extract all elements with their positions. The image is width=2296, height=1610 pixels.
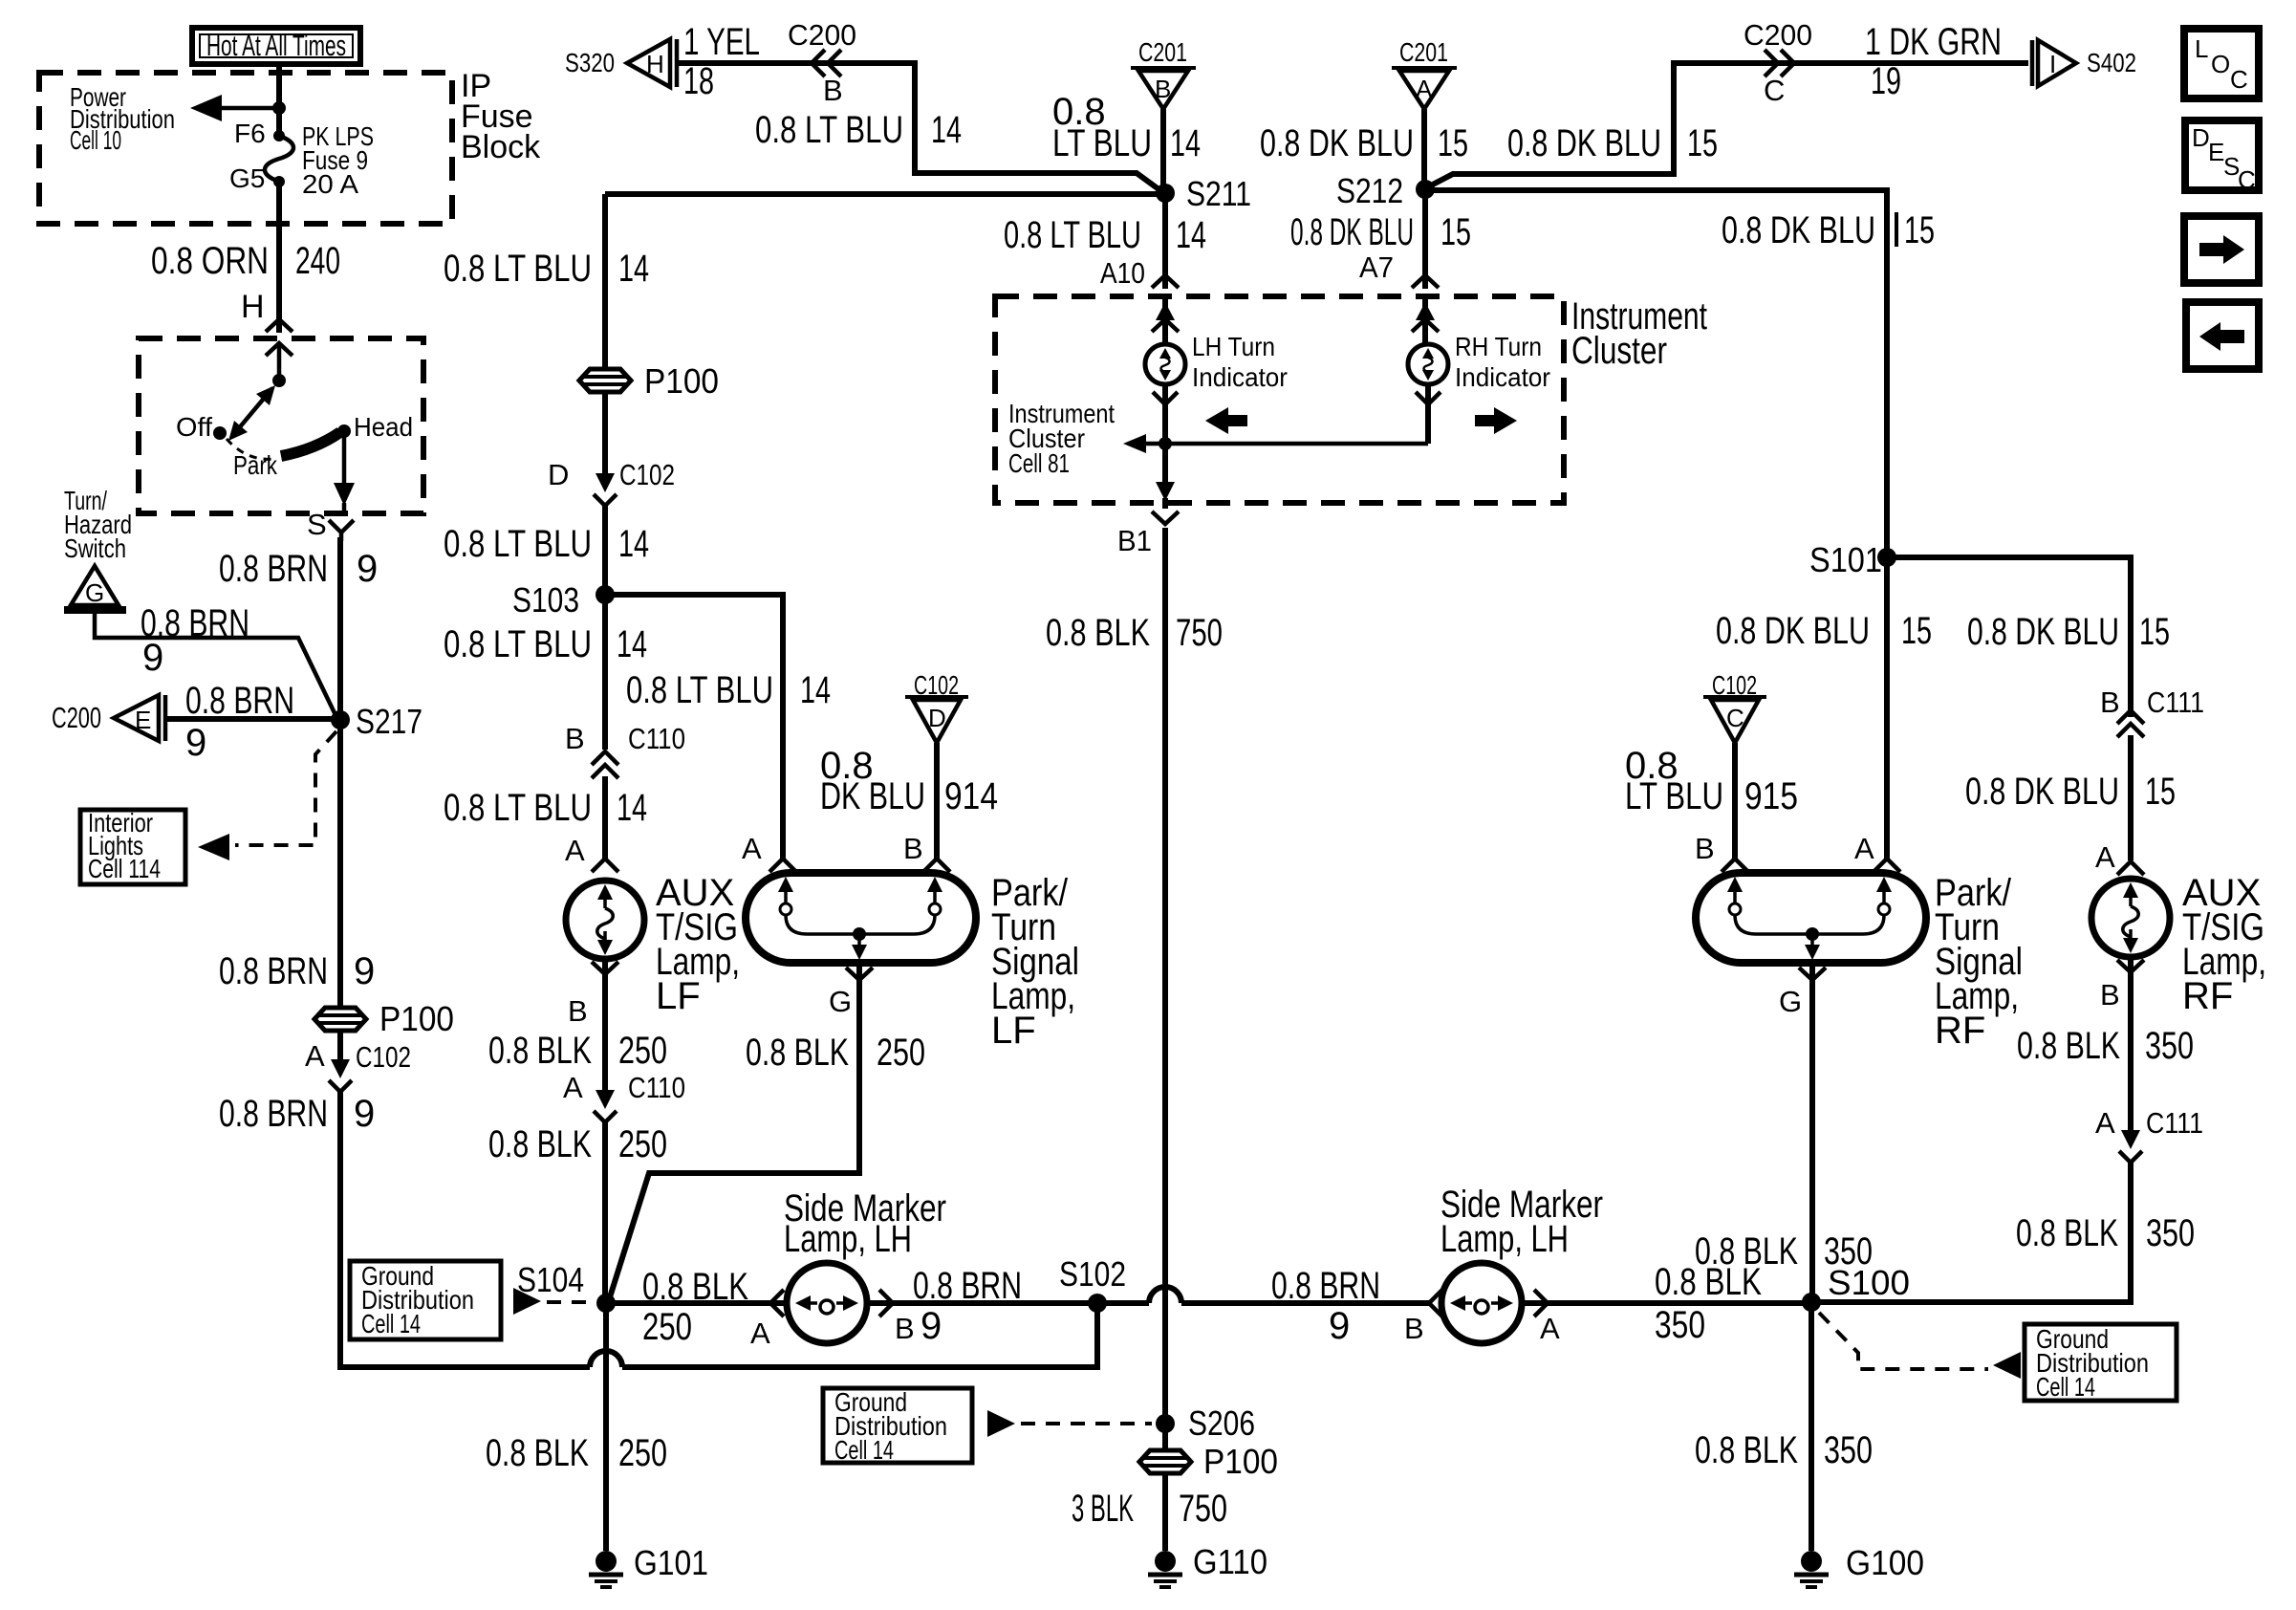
svg-text:0.8 BLK: 0.8 BLK [746, 1032, 849, 1074]
svg-text:C102: C102 [356, 1040, 411, 1074]
svg-text:0.8 DK BLU: 0.8 DK BLU [1507, 122, 1661, 164]
Ground Distribution Cell 14 box (right) [2025, 1324, 2177, 1402]
pin A of side marker lamp LH (left) [750, 1290, 784, 1350]
svg-text:Lamp, LH: Lamp, LH [784, 1218, 912, 1260]
label LH Turn Indicator [1192, 332, 1288, 392]
pin B of RF park/turn lamp [1695, 832, 1748, 872]
svg-text:F6: F6 [234, 119, 266, 148]
svg-text:A: A [565, 834, 585, 867]
label 0.8 DK BLU 15 [1965, 771, 2176, 813]
grommet P100 (dash panel, left-middle) [579, 361, 719, 401]
svg-text:Cell 114: Cell 114 [88, 854, 161, 883]
wire from Head contact down, exits switch as pin S [334, 431, 355, 512]
svg-text:C201: C201 [1138, 37, 1187, 67]
svg-text:C: C [1726, 704, 1744, 732]
IP Fuse Block dashed box [39, 73, 452, 224]
svg-text:Head: Head [354, 412, 413, 442]
svg-text:D: D [548, 458, 569, 491]
svg-text:DK BLU: DK BLU [820, 775, 925, 817]
wire 0.8 BRN 9 from LH side marker to S102 [867, 1300, 1090, 1306]
connector S320 pin H (triangle) [565, 39, 677, 87]
svg-text:9: 9 [1329, 1305, 1350, 1347]
svg-text:240: 240 [295, 240, 340, 282]
AUX T/SIG Lamp RF (bulb) [2091, 879, 2170, 957]
label 0.8 LT BLU 14 [444, 787, 647, 829]
label 0.8 BRN 9 [219, 548, 378, 590]
svg-text:G5: G5 [229, 163, 265, 193]
wire 0.8 LT BLU 14 from C110-B to AUX lamp pin A [602, 776, 608, 860]
svg-text:14: 14 [617, 787, 647, 829]
junction S217 [331, 702, 422, 741]
label 0.8 BLK 350 [1695, 1429, 1873, 1471]
svg-text:0.8 LT BLU: 0.8 LT BLU [444, 787, 592, 829]
svg-text:0.8 LT BLU: 0.8 LT BLU [755, 109, 903, 151]
svg-text:15: 15 [1438, 122, 1468, 164]
svg-text:0.8 BLK: 0.8 BLK [642, 1266, 748, 1308]
label 0.8 BRN 9 [219, 1093, 375, 1135]
svg-text:0.8 LT BLU: 0.8 LT BLU [626, 669, 773, 711]
svg-text:0.8 BLK: 0.8 BLK [488, 1030, 592, 1072]
pin A10 of instrument cluster [1100, 256, 1179, 290]
connector C102 pin A (inline, arrow down) [305, 1033, 411, 1092]
arrowhead to right ground box [1993, 1352, 2021, 1379]
wire 0.8 LT BLU 14 horizontal from left riser to S211 [605, 191, 1158, 197]
ground G100 [1794, 1543, 1924, 1587]
junction S102 [1059, 1254, 1126, 1313]
Headlamp Switch dashed box [139, 338, 423, 513]
svg-text:9: 9 [185, 722, 206, 764]
svg-text:A: A [1416, 75, 1433, 103]
svg-text:9: 9 [354, 1093, 375, 1135]
svg-text:E: E [135, 706, 151, 734]
connector G to Turn/Hazard Switch (triangle) [64, 566, 126, 610]
svg-text:0.8 ORN: 0.8 ORN [151, 240, 269, 282]
svg-text:0.8 BRN: 0.8 BRN [185, 680, 294, 722]
svg-text:G: G [85, 578, 104, 607]
label 0.8 BLK / 350 [1655, 1261, 1762, 1346]
Interior Lights Cell 114 box [80, 808, 185, 884]
svg-text:RH Turn: RH Turn [1455, 332, 1542, 361]
wire riser x=633 from horizontal down to P100 [602, 194, 608, 369]
label AUX T/SIG Lamp, LF [656, 872, 740, 1017]
junction S104 [517, 1260, 616, 1313]
svg-text:9: 9 [357, 548, 378, 590]
wire 0.8 DK BLU 15 from C111-B to AUX RF lamp pin A [2128, 735, 2134, 860]
label 0.8 BLK 350 [2016, 1212, 2195, 1254]
svg-text:0.8 BLK: 0.8 BLK [1695, 1429, 1798, 1471]
pin G of LF park/turn lamp [829, 968, 873, 1018]
label Side Marker Lamp, LH (right) [1440, 1184, 1603, 1260]
RH Turn Indicator lamp [1408, 344, 1448, 384]
ground G110 [1148, 1542, 1267, 1587]
svg-text:I: I [2049, 50, 2056, 78]
svg-text:LT BLU: LT BLU [1625, 775, 1723, 817]
svg-text:C200: C200 [1744, 18, 1812, 52]
svg-text:Off: Off [176, 412, 212, 442]
svg-text:B: B [2100, 685, 2120, 719]
pin B of side marker lamp LH (left) [879, 1290, 915, 1345]
pin A of AUX T/SIG lamp RF [2095, 840, 2144, 875]
svg-text:14: 14 [800, 669, 831, 711]
svg-text:Block: Block [461, 129, 541, 165]
svg-text:15: 15 [1440, 211, 1471, 253]
grommet P100 (left) [314, 999, 454, 1038]
svg-text:0.8 BLK: 0.8 BLK [2016, 1212, 2118, 1254]
wire 0.8 DK BLU 15 from S101 down to RF park/turn lamp pin A [1884, 557, 1890, 859]
svg-text:Indicator: Indicator [1455, 362, 1550, 392]
svg-text:P100: P100 [379, 999, 454, 1038]
svg-text:S320: S320 [565, 48, 615, 77]
label Park/Turn Signal Lamp, RF [1935, 872, 2023, 1052]
wire 0.8 LT BLU 14 from C102-D to S103 [602, 504, 608, 589]
connector C110 pin A (inline, arrow down) [563, 1071, 685, 1122]
connector C102 pin C triangle feeding RF park/turn pin B [1703, 670, 1766, 743]
svg-text:Cell 14: Cell 14 [361, 1309, 421, 1338]
svg-text:0.8 DK BLU: 0.8 DK BLU [1716, 610, 1870, 652]
label 0.8 DK BLU 15 (S212 to S101) [1722, 209, 1935, 251]
pin B of AUX T/SIG lamp LF [568, 962, 618, 1028]
svg-text:14: 14 [618, 523, 649, 565]
svg-text:0.8 BRN: 0.8 BRN [219, 548, 328, 590]
connector C111 pin B (inline, chevrons up) [2100, 685, 2204, 737]
reference box LOC [2184, 29, 2259, 98]
wire 0.8 BLK 250 from S104 down to ground G101 [603, 1303, 609, 1551]
svg-text:A: A [2095, 840, 2115, 874]
svg-text:15: 15 [1901, 610, 1932, 652]
svg-text:14: 14 [1176, 214, 1206, 256]
svg-text:A: A [305, 1039, 325, 1073]
svg-text:Park: Park [233, 450, 278, 480]
label 0.8 BLK 250 [486, 1432, 667, 1474]
label 0.8 DK BLU 15 (to C111-B) [1967, 611, 2170, 653]
svg-text:250: 250 [618, 1123, 667, 1165]
svg-text:P100: P100 [1203, 1442, 1278, 1481]
pin A of RF park/turn lamp [1854, 832, 1900, 872]
connector C102 pin D (inline, arrow down) [548, 394, 675, 506]
svg-text:0.8 LT BLU: 0.8 LT BLU [444, 248, 592, 290]
dashed travel arc to Park [227, 439, 275, 459]
label 0.8 DK BLU 15 [1260, 122, 1468, 164]
connector C110 pin B (inline, chevrons up) [565, 722, 685, 778]
svg-text:1 YEL: 1 YEL [683, 21, 760, 63]
wire 0.8 DK BLU 15 from S212 to cluster pin A7 [1422, 189, 1428, 289]
switch wiper arm (double arrow) [228, 385, 275, 441]
wire 0.8 DK BLU 914 from C102-D to LF lamp pin B [934, 743, 940, 859]
svg-text:B: B [895, 1312, 915, 1345]
label 0.8 LT BLU 14 [444, 523, 649, 565]
switch position Off [176, 412, 227, 442]
junction dot on bus at B1 leg [1159, 437, 1172, 450]
svg-text:914: 914 [944, 775, 998, 817]
svg-text:S206: S206 [1188, 1403, 1255, 1443]
dashed reference arrow from left box to S104 [513, 1288, 593, 1315]
label 0.8 DK BLU 15 [1290, 211, 1471, 253]
svg-text:C: C [2238, 165, 2256, 194]
label 0.8 / DK BLU 914 [820, 745, 998, 817]
svg-text:Cell 10: Cell 10 [70, 125, 121, 155]
svg-text:14: 14 [618, 248, 649, 290]
svg-text:B: B [1695, 832, 1715, 865]
label 0.8 BLK / 250 [642, 1266, 748, 1348]
svg-text:0.8 LT BLU: 0.8 LT BLU [444, 623, 592, 665]
power label box "Hot At All Times" [192, 28, 360, 64]
Park/Turn Signal Lamp RF (dual filament stadium) [1696, 873, 1926, 963]
bump over instrument cluster ground leg [1149, 1287, 1181, 1303]
svg-text:C201: C201 [1399, 37, 1448, 67]
wire 0.8 BLK 250 from AUX lamp B to C110-A [602, 959, 608, 1090]
wire below RH indicator to cluster bus [1416, 384, 1440, 444]
wire 0.8 BLK 350 from C111-A down and left to S100 [1820, 1161, 2131, 1302]
svg-text:250: 250 [877, 1032, 925, 1074]
bump over S104 ground leg [590, 1351, 622, 1367]
dashed reference arrow from middle box to S206 [987, 1410, 1152, 1437]
svg-text:A10: A10 [1100, 256, 1145, 290]
reference box DESC [2185, 120, 2259, 194]
wire 0.8 DK BLU 15 from S212 up to C200-C and on to S402 [1429, 63, 2028, 186]
svg-text:0.8 DK BLU: 0.8 DK BLU [1722, 209, 1875, 251]
svg-text:14: 14 [617, 623, 647, 665]
wire 0.8 BLK 350 from RF lamp G down to S100 [1809, 963, 1815, 1302]
svg-text:C110: C110 [628, 722, 685, 755]
pin B of AUX T/SIG lamp RF [2100, 960, 2144, 1012]
Ground Distribution Cell 14 box (left) [350, 1261, 501, 1339]
label 0.8 BLK 350 [2017, 1025, 2194, 1067]
svg-text:G110: G110 [1193, 1542, 1267, 1581]
connector C102 pin D triangle feeding LF park/turn pin B [905, 670, 968, 743]
switch contact arc (Park-Head, closed) [281, 432, 340, 456]
label 0.8 BLK 250 [488, 1030, 667, 1072]
AUX T/SIG Lamp LF (bulb) [566, 881, 644, 959]
junction S103 [512, 580, 615, 620]
svg-text:250: 250 [642, 1306, 692, 1348]
wire below LH indicator to cluster bus [1153, 384, 1178, 444]
svg-text:O: O [2211, 50, 2230, 78]
junction S100 [1802, 1263, 1910, 1312]
svg-text:C111: C111 [2146, 1106, 2203, 1140]
junction S212 [1336, 171, 1435, 210]
arrowhead to Interior Lights box [198, 834, 229, 860]
LH turn arrow (solid left arrow) [1205, 407, 1247, 434]
headlamp switch feed chevron [266, 343, 292, 379]
svg-text:915: 915 [1744, 775, 1798, 817]
wire 0.8 BRN 9 from G down and right to S217 [95, 610, 336, 717]
wire 0.8 BLK 250 from C110-A to S104 [602, 1120, 608, 1300]
svg-text:E: E [2208, 138, 2224, 166]
svg-text:G: G [1779, 985, 1802, 1018]
label 0.8 BRN 9 [219, 950, 375, 992]
svg-text:A: A [1540, 1312, 1560, 1345]
wire 0.8 DK BLU 15 from S101 right and down to C111-B [1887, 557, 2131, 717]
wire 0.8 BRN 9 from S to S217 [337, 537, 343, 715]
wire 0.8 LT BLU 14 from C201-B to S211 [1160, 109, 1166, 187]
svg-text:0.8 DK BLU: 0.8 DK BLU [1260, 122, 1414, 164]
Side Marker Lamp LH (left, bulb) [787, 1263, 867, 1343]
svg-text:B: B [2100, 978, 2120, 1012]
svg-text:Cell 81: Cell 81 [1008, 448, 1070, 478]
wire 0.8 BLK 350 from S100 to ground G100 [1809, 1302, 1814, 1551]
label 1 DK GRN / 19 [1865, 21, 2002, 102]
label Instrument Cluster Cell 81 [1008, 399, 1115, 478]
connector C200 pin C (inline chevrons) [1744, 18, 1812, 107]
svg-text:0.8 LT BLU: 0.8 LT BLU [444, 523, 592, 565]
svg-text:0.8 DK BLU: 0.8 DK BLU [1965, 771, 2119, 813]
wire 0.8 BRN 9 from C102 down, right to S102 (bumps over S104 leg) [340, 1090, 1097, 1367]
svg-text:0.8 BRN: 0.8 BRN [1271, 1265, 1380, 1307]
label 0.8 ORN 240 [151, 240, 340, 282]
svg-text:A: A [2095, 1106, 2115, 1140]
wire 0.8 BRN 9 from C200-E to S217 [167, 716, 333, 722]
svg-text:S: S [307, 508, 327, 541]
svg-text:S402: S402 [2087, 48, 2136, 77]
svg-text:Cell 14: Cell 14 [2036, 1372, 2095, 1402]
Ground Distribution Cell 14 box (middle) [823, 1387, 972, 1465]
junction S101 [1809, 540, 1896, 579]
label "IP Fuse Block" [461, 68, 541, 165]
svg-text:Lamp, LH: Lamp, LH [1440, 1218, 1569, 1260]
svg-text:A: A [750, 1316, 770, 1350]
wire 0.8 LT BLU 14 from S211 to cluster pin A10 [1162, 193, 1168, 289]
svg-text:350: 350 [1824, 1429, 1873, 1471]
pin A7 of instrument cluster [1359, 250, 1439, 288]
wire from bus down to cluster pin B1 [1156, 444, 1175, 509]
label Turn/Hazard Switch [64, 486, 132, 563]
svg-text:0.8 DK BLU: 0.8 DK BLU [1967, 611, 2119, 653]
svg-text:H: H [646, 50, 664, 78]
svg-text:S212: S212 [1336, 171, 1403, 210]
svg-text:0.8 DK BLU: 0.8 DK BLU [1290, 211, 1414, 253]
label 0.8 BRN / 9 (E branch) [185, 680, 294, 764]
label 0.8 BLK 750 [1046, 612, 1223, 654]
connector C200 pin E (triangle) [52, 695, 165, 741]
wire 0.8 DK BLU 15 from C201-A to S212 [1421, 109, 1427, 185]
svg-text:15: 15 [1687, 122, 1718, 164]
label 1 YEL / 18 [683, 21, 760, 102]
svg-text:C: C [2230, 65, 2248, 94]
wire arrow to Power Distribution [190, 95, 279, 121]
label RH Turn Indicator [1455, 332, 1550, 392]
svg-text:S102: S102 [1059, 1254, 1126, 1294]
svg-text:0.8 BLK: 0.8 BLK [486, 1432, 589, 1474]
label 0.8 LT BLU 14 [1004, 214, 1206, 256]
svg-text:9: 9 [354, 950, 375, 992]
svg-text:C102: C102 [619, 458, 675, 491]
RH turn arrow (solid right arrow) [1475, 407, 1517, 434]
pin B of LF park/turn lamp [903, 832, 950, 872]
connector C200 pin B (inline chevrons) [788, 18, 856, 107]
label Side Marker Lamp, LH (left) [784, 1187, 946, 1260]
svg-text:15: 15 [1904, 209, 1935, 251]
connector C201 pin B (triangle) [1131, 37, 1196, 109]
wire from Hot At All Times down to fuse F6 [276, 64, 282, 134]
svg-text:S101: S101 [1809, 540, 1882, 579]
svg-text:0.8 BLK: 0.8 BLK [1046, 612, 1150, 654]
svg-text:Switch: Switch [64, 533, 126, 563]
svg-text:B: B [1404, 1312, 1424, 1345]
svg-text:250: 250 [618, 1030, 667, 1072]
svg-text:C200: C200 [788, 18, 856, 52]
svg-text:A: A [742, 832, 762, 865]
svg-text:B: B [568, 994, 588, 1028]
svg-text:S100: S100 [1828, 1263, 1910, 1302]
label 0.8 / LT BLU 14 [1052, 91, 1201, 164]
label AUX T/SIG Lamp, RF [2182, 872, 2266, 1017]
pin B of side marker lamp LH (right) [1404, 1290, 1442, 1345]
svg-text:S104: S104 [517, 1260, 584, 1299]
connector S402 pin I (triangle) [2032, 40, 2136, 86]
pin G of RF park/turn lamp [1779, 968, 1826, 1018]
svg-text:0.8 BRN: 0.8 BRN [219, 950, 328, 992]
pin S chevron below switch box [307, 508, 354, 541]
svg-text:A7: A7 [1359, 250, 1394, 284]
label 0.8 BLK 250 (G leg) [746, 1032, 925, 1074]
label 0.8 BLK 250 [488, 1123, 667, 1165]
svg-text:G: G [829, 985, 852, 1018]
wire 0.8 BLK 250 from S104 to LH side marker pin A [606, 1300, 787, 1306]
wire 0.8 BLK 350 from AUX RF B to C111-A [2128, 957, 2134, 1130]
svg-text:RF: RF [1935, 1010, 1985, 1052]
svg-text:0.8 BRN: 0.8 BRN [913, 1265, 1022, 1307]
svg-text:G100: G100 [1846, 1543, 1924, 1582]
svg-text:15: 15 [2145, 771, 2176, 813]
svg-text:LF: LF [656, 975, 701, 1017]
junction S206 [1156, 1403, 1255, 1443]
svg-text:14: 14 [1170, 122, 1201, 164]
grommet P100 (bottom) [1139, 1424, 1278, 1481]
svg-text:G101: G101 [634, 1543, 708, 1582]
connector C201 pin A (triangle) [1392, 37, 1457, 109]
svg-text:350: 350 [1655, 1304, 1705, 1346]
label 0.8 BRN / 9 [1271, 1265, 1380, 1347]
label Park/Turn Signal Lamp, LF [991, 872, 1079, 1052]
label 0.8 LT BLU 14 (riser to S211) [755, 109, 962, 151]
wire 0.8 ORN 240 from fuse to headlamp switch [276, 182, 282, 333]
Instrument Cluster dashed box [995, 296, 1564, 503]
junction S211 [1156, 174, 1251, 213]
svg-text:B: B [903, 832, 923, 865]
svg-text:20 A: 20 A [302, 169, 358, 199]
svg-text:Indicator: Indicator [1192, 362, 1288, 392]
svg-text:9: 9 [142, 637, 163, 679]
svg-text:S211: S211 [1186, 174, 1251, 213]
label "Power Distribution Cell 10" [70, 82, 175, 155]
wire 0.8 BLK 750 from cluster B1 down to S206 (bumps handled on crossing wire) [1162, 528, 1168, 1415]
label 0.8 LT BLU 14 [444, 248, 649, 290]
svg-text:0.8 BLK: 0.8 BLK [2017, 1025, 2120, 1067]
label 0.8 BRN / 9 [913, 1265, 1022, 1347]
svg-text:19: 19 [1871, 60, 1901, 102]
svg-text:P100: P100 [644, 361, 719, 401]
label 0.8 DK BLU 15 (riser to C200-C) [1507, 122, 1718, 164]
svg-text:B: B [1155, 75, 1171, 103]
wire 0.8 BRN 9 from S217 down to P100 grommet [337, 720, 343, 1006]
Side Marker Lamp LH (right, bulb) [1441, 1263, 1522, 1343]
cluster entry arrow at A7 [1412, 294, 1439, 344]
svg-text:350: 350 [2145, 1025, 2194, 1067]
svg-text:A: A [1854, 832, 1874, 865]
svg-text:C200: C200 [52, 701, 101, 734]
dashed reference from S100 to Ground Distribution box (right) [1819, 1313, 1988, 1369]
svg-text:LT BLU: LT BLU [1052, 122, 1152, 164]
svg-text:350: 350 [2146, 1212, 2195, 1254]
junction dot on power feed [272, 101, 286, 115]
svg-text:C: C [1764, 74, 1785, 107]
pin A of side marker lamp LH (right) [1534, 1290, 1560, 1345]
svg-text:D: D [2192, 123, 2210, 152]
LH Turn Indicator lamp [1145, 344, 1185, 384]
svg-text:B: B [823, 74, 843, 107]
svg-text:B: B [565, 722, 585, 755]
label 0.8 BLK 350 (G leg) [1695, 1230, 1873, 1273]
